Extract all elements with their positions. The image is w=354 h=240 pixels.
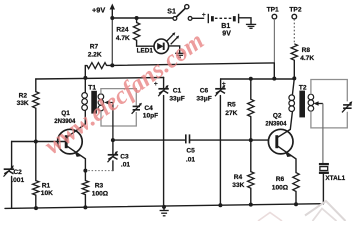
- svg-text:.001: .001: [11, 177, 24, 184]
- svg-text:C1: C1: [173, 88, 182, 95]
- svg-text:2N3904: 2N3904: [265, 122, 287, 128]
- svg-text:10K: 10K: [41, 190, 53, 197]
- svg-text:TP1: TP1: [267, 7, 279, 14]
- svg-text:C2: C2: [13, 169, 22, 176]
- svg-text:C3: C3: [120, 154, 129, 161]
- svg-text:LED1: LED1: [137, 48, 154, 55]
- svg-text:2.2K: 2.2K: [88, 52, 102, 59]
- svg-text:R5: R5: [227, 102, 236, 109]
- svg-text:10pF: 10pF: [143, 113, 158, 120]
- svg-text:R6: R6: [276, 176, 285, 183]
- svg-text:.01: .01: [186, 157, 195, 164]
- svg-text:Q2: Q2: [273, 113, 282, 120]
- svg-text:R24: R24: [116, 27, 128, 34]
- svg-text:C5: C5: [186, 147, 195, 154]
- svg-text:C6: C6: [200, 88, 209, 95]
- svg-text:33μF: 33μF: [196, 96, 211, 103]
- svg-text:+9V: +9V: [92, 5, 105, 14]
- svg-text:R3: R3: [95, 182, 104, 189]
- svg-text:R2: R2: [19, 93, 28, 100]
- svg-text:+: +: [202, 12, 206, 19]
- svg-text:XTAL1: XTAL1: [325, 175, 345, 182]
- svg-text:33μF: 33μF: [169, 96, 184, 103]
- svg-text:33K: 33K: [232, 182, 244, 189]
- svg-text:B1: B1: [221, 23, 230, 30]
- svg-text:R4: R4: [234, 174, 243, 181]
- svg-text:4.7K: 4.7K: [300, 55, 314, 62]
- svg-text:T1: T1: [88, 85, 96, 92]
- svg-text:R1: R1: [42, 182, 51, 189]
- svg-text:.01: .01: [121, 161, 130, 168]
- svg-text:33K: 33K: [17, 100, 29, 107]
- svg-text:+: +: [222, 81, 226, 88]
- svg-text:27K: 27K: [225, 110, 237, 117]
- svg-text:4.7K: 4.7K: [116, 35, 130, 42]
- svg-text:C4: C4: [144, 105, 153, 112]
- svg-text:S1: S1: [167, 9, 176, 16]
- svg-text:TP2: TP2: [289, 7, 301, 14]
- svg-text:T2: T2: [299, 85, 307, 92]
- svg-text:R7: R7: [90, 44, 99, 51]
- svg-text:100Ω: 100Ω: [92, 190, 109, 197]
- svg-text:9V: 9V: [222, 30, 231, 37]
- svg-text:R8: R8: [302, 47, 311, 54]
- svg-text:100Ω: 100Ω: [272, 184, 289, 191]
